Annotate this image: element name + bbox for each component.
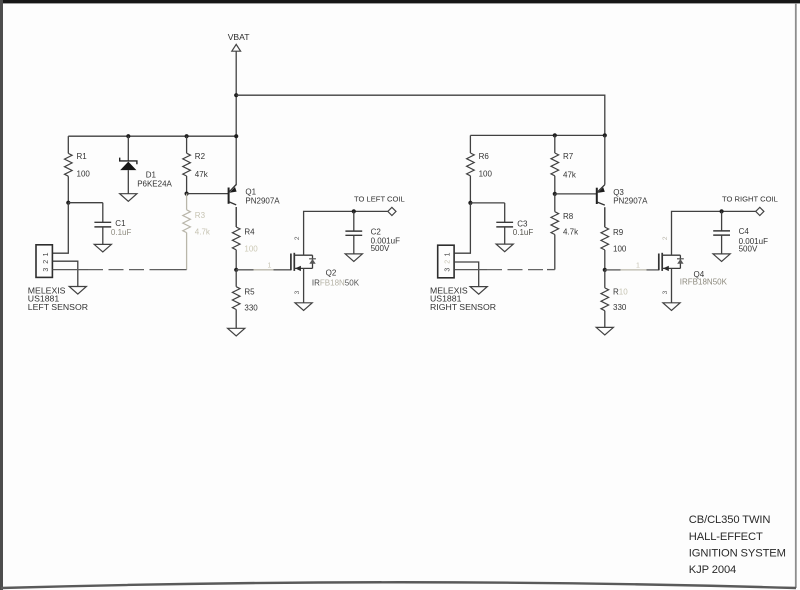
- svg-text:3: 3: [43, 268, 50, 272]
- svg-text:D1: D1: [146, 171, 157, 180]
- svg-text:0.1uF: 0.1uF: [513, 228, 534, 237]
- svg-text:500V: 500V: [739, 244, 758, 253]
- svg-text:330: 330: [613, 303, 627, 312]
- MOSFET Q2 IRFB18N50K: [291, 253, 360, 288]
- TVS diode D1 P6KE24A: [120, 136, 173, 194]
- wire left sensor pin 2 to ground: [53, 261, 78, 286]
- node R6 bottom / C3 junction: [468, 201, 472, 205]
- wire left sensor pin 3 to R3 (faded): [53, 269, 187, 271]
- node VBAT-interconnect junction: [234, 93, 238, 97]
- capacitor C2: [345, 211, 400, 254]
- svg-text:R6: R6: [479, 152, 490, 161]
- svg-text:4.7k: 4.7k: [195, 228, 211, 237]
- wire Q3 base: [555, 193, 597, 195]
- svg-text:330: 330: [244, 303, 258, 312]
- svg-text:TO RIGHT COIL: TO RIGHT COIL: [722, 195, 778, 204]
- node coil line / C4 junction: [720, 209, 724, 213]
- resistor R1: [65, 136, 91, 203]
- frame left border bar: [0, 0, 3, 590]
- MOSFET Q4 IRFB18N50K: [659, 253, 728, 287]
- svg-text:2: 2: [294, 236, 301, 240]
- ground below R5: [228, 328, 245, 336]
- wire right rail down to Q3 emitter: [604, 135, 606, 184]
- node right rail / R7: [553, 133, 557, 137]
- wire Q4 drain to right coil line: [672, 211, 756, 255]
- svg-text:2: 2: [43, 260, 50, 264]
- ground below Q4 source: [663, 303, 680, 311]
- ground below right sensor pin 2: [470, 287, 487, 295]
- resistor R5: [232, 270, 258, 329]
- wire right supply rail: [470, 134, 604, 136]
- svg-text:500V: 500V: [371, 244, 390, 253]
- wire Q1 base: [187, 193, 229, 195]
- terminal TO LEFT COIL: [388, 207, 396, 215]
- svg-text:1: 1: [268, 263, 272, 270]
- svg-text:IRFB18N50K: IRFB18N50K: [680, 278, 728, 287]
- node left rail / D1: [126, 134, 130, 138]
- svg-text:Q2: Q2: [326, 268, 337, 277]
- resistor R10: [601, 270, 628, 328]
- resistor R2: [183, 136, 209, 193]
- wire R4-R5 junction to Q2 gate: [236, 269, 291, 271]
- svg-text:2: 2: [445, 260, 452, 264]
- wire R6 junction down to right sensor pin 1: [455, 203, 471, 253]
- wire R1 junction down to sensor pin 1: [53, 203, 69, 254]
- wire right sensor pin 3 to R8 (faded): [455, 269, 555, 271]
- svg-text:PN2907A: PN2907A: [613, 197, 648, 206]
- svg-text:PN2907A: PN2907A: [245, 196, 280, 205]
- svg-text:RIGHT SENSOR: RIGHT SENSOR: [430, 302, 496, 312]
- node R2 / R3 / Q1 base junction: [185, 192, 189, 196]
- node R1 bottom / C1 junction: [66, 201, 70, 205]
- wire R6 junction to C3: [470, 202, 504, 204]
- node R4 / R5 / Q2 gate junction: [234, 268, 238, 272]
- node left rail / VBAT column: [234, 134, 238, 138]
- frame right border line: [795, 3, 797, 588]
- svg-text:3: 3: [294, 290, 301, 294]
- svg-text:TO LEFT COIL: TO LEFT COIL: [354, 195, 405, 204]
- ground below D1: [120, 194, 137, 202]
- frame bottom border line: [1, 582, 796, 588]
- ground below C3: [496, 244, 513, 252]
- svg-text:R4: R4: [244, 227, 255, 236]
- capacitor C4: [713, 211, 768, 254]
- resistor R4: [232, 207, 258, 270]
- node R7 / R8 / Q3 base junction: [553, 192, 557, 196]
- resistor R8: [551, 194, 579, 270]
- wire Q3 collector to R9: [604, 207, 606, 227]
- svg-text:KJP 2004: KJP 2004: [689, 564, 736, 576]
- capacitor C3: [496, 203, 533, 244]
- ground below R10: [596, 327, 613, 335]
- svg-text:Q3: Q3: [613, 188, 624, 197]
- svg-text:1: 1: [43, 252, 50, 256]
- title block text: [689, 514, 786, 576]
- node R9 / R10 / Q4 gate junction: [603, 268, 607, 272]
- wire R9-R10 junction to Q4 gate: [605, 269, 659, 271]
- svg-text:R8: R8: [563, 212, 574, 221]
- svg-text:C4: C4: [739, 227, 750, 236]
- resistor R6: [467, 135, 493, 203]
- svg-text:2: 2: [662, 236, 669, 240]
- svg-text:1: 1: [636, 263, 640, 270]
- svg-text:3: 3: [662, 290, 669, 294]
- svg-text:VBAT: VBAT: [228, 32, 251, 42]
- svg-text:100: 100: [77, 170, 91, 179]
- node left rail / R2: [185, 134, 189, 138]
- ground below C4: [713, 254, 730, 262]
- wire right sensor pin 2 to ground: [455, 262, 479, 287]
- svg-text:R10: R10: [613, 288, 628, 297]
- svg-text:HALL-EFFECT: HALL-EFFECT: [689, 531, 763, 543]
- ground below C1: [94, 244, 111, 252]
- wire left supply rail: [68, 135, 236, 137]
- svg-text:100: 100: [244, 244, 258, 253]
- frame top border bar: [0, 0, 800, 3]
- svg-text:CB/CL350 TWIN: CB/CL350 TWIN: [689, 514, 771, 526]
- svg-text:47k: 47k: [563, 170, 577, 179]
- svg-text:47k: 47k: [195, 170, 209, 179]
- node coil line / C2 junction: [352, 209, 356, 213]
- resistor R3: [183, 194, 211, 270]
- capacitor C1: [94, 203, 131, 245]
- ground below left sensor pin 2: [69, 287, 86, 295]
- wire Q2 source to ground: [303, 268, 305, 302]
- svg-text:IGNITION SYSTEM: IGNITION SYSTEM: [689, 548, 786, 560]
- svg-text:R3: R3: [195, 211, 206, 220]
- svg-text:3: 3: [445, 268, 452, 272]
- resistor R7: [551, 135, 577, 194]
- node right rail / main column: [603, 133, 607, 137]
- svg-text:0.1uF: 0.1uF: [111, 228, 132, 237]
- svg-text:R7: R7: [563, 152, 574, 161]
- terminal TO RIGHT COIL: [756, 207, 764, 215]
- wire Q2 drain to left coil line: [304, 211, 388, 255]
- svg-text:R2: R2: [195, 152, 206, 161]
- svg-text:R1: R1: [77, 152, 88, 161]
- svg-text:P6KE24A: P6KE24A: [137, 179, 172, 188]
- svg-text:1: 1: [445, 252, 452, 256]
- svg-text:C1: C1: [115, 219, 126, 228]
- ground below Q2 source: [295, 303, 312, 311]
- wire VBAT vertical to Q1 emitter: [235, 51, 237, 185]
- transistor Q1 PN2907A: [229, 185, 281, 206]
- connector J1 MELEXIS US1881 left sensor: [28, 245, 88, 312]
- svg-text:LEFT SENSOR: LEFT SENSOR: [28, 302, 88, 312]
- svg-text:Q1: Q1: [245, 188, 256, 197]
- ground below C2: [345, 254, 362, 262]
- wire Q4 source to ground: [671, 268, 673, 302]
- connector J2 MELEXIS US1881 right sensor: [430, 245, 496, 312]
- svg-text:IRFB18N50K: IRFB18N50K: [312, 279, 360, 288]
- svg-text:4.7k: 4.7k: [563, 228, 579, 237]
- wire R1 junction to C1: [68, 202, 103, 204]
- wire Q1 collector to R4: [235, 207, 237, 227]
- svg-text:100: 100: [479, 169, 493, 178]
- resistor R9: [601, 207, 627, 270]
- wire top interconnect to right half: [236, 95, 605, 135]
- svg-text:100: 100: [613, 245, 627, 254]
- svg-text:R9: R9: [613, 228, 624, 237]
- power symbol VBAT: [228, 32, 251, 51]
- transistor Q3 PN2907A: [597, 185, 648, 206]
- svg-text:R5: R5: [244, 287, 255, 296]
